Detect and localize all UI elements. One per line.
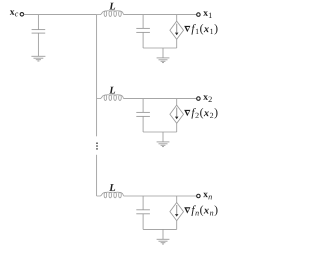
wire branch 1 rail	[124, 14, 197, 16]
wire capacitor bottom branch 3	[142, 214, 144, 230]
wire ground tap branch 3	[162, 229, 164, 239]
terminal node x_c	[20, 13, 24, 16]
current source arrow branch 3	[176, 205, 178, 214]
wire vertical bus lower	[96, 155, 98, 196]
current source arrow branch 2	[176, 108, 178, 117]
inductor value label L (branch 1)	[109, 3, 115, 10]
wire capacitor bottom branch 2	[142, 116, 144, 132]
inductor value label L (branch 2)	[109, 87, 115, 94]
capacitor branch 1	[136, 27, 150, 29]
wire x_c capacitor bottom stub	[37, 33, 39, 56]
dependent current source diamond branch 1	[170, 21, 184, 39]
wire bottom branch 2	[143, 131, 177, 133]
wire capacitor tap branch 2	[142, 99, 144, 113]
terminal node x_2	[197, 97, 201, 101]
wire bottom branch 1	[143, 47, 177, 49]
wire diamond bottom stub branch 1	[176, 39, 178, 48]
node label x_1	[203, 11, 212, 18]
current source arrow branch 1	[176, 24, 178, 33]
dependent current source diamond branch 2	[170, 105, 184, 123]
inductor L (branch 3)	[97, 192, 124, 198]
wire diamond top stub branch 2	[176, 99, 178, 106]
wire capacitor bottom branch 1	[142, 32, 144, 48]
inductor L (branch 2)	[97, 95, 124, 101]
wire branch 2 rail	[124, 98, 197, 100]
source value label nabla f_n(x_n)	[184, 207, 190, 213]
wire x_c rail	[24, 14, 97, 16]
wire diamond top stub branch 1	[176, 15, 178, 22]
wire diamond top stub branch 3	[176, 196, 178, 203]
node label x_2	[203, 95, 212, 102]
capacitor x_c	[32, 29, 46, 31]
vertical ellipsis dots on bus	[96, 142, 98, 144]
wire bottom branch 3	[143, 228, 177, 230]
node label x_n	[203, 193, 212, 200]
ground x_c	[31, 55, 45, 57]
wire ground tap branch 2	[162, 132, 164, 142]
wire diamond bottom stub branch 3	[176, 221, 178, 230]
ground branch 3	[157, 238, 170, 240]
wire capacitor tap branch 3	[142, 196, 144, 210]
ground branch 2	[157, 141, 170, 143]
terminal node x_1	[197, 13, 201, 17]
wire capacitor tap branch 1	[142, 15, 144, 29]
inductor value label L (branch 3)	[109, 184, 115, 191]
capacitor branch 2	[136, 111, 150, 113]
wire x_c capacitor top stub	[37, 15, 39, 30]
ground branch 1	[157, 57, 170, 59]
capacitor branch 3	[136, 209, 150, 211]
wire vertical bus upper	[96, 15, 98, 137]
terminal node x_n	[197, 194, 201, 198]
node label x_c	[10, 10, 18, 16]
wire ground tap branch 1	[162, 48, 164, 58]
dependent current source diamond branch 3	[170, 203, 184, 221]
source value label nabla f_1(x_1)	[184, 26, 190, 32]
source value label nabla f_2(x_2)	[184, 110, 190, 116]
wire branch 3 rail	[124, 195, 197, 197]
wire diamond bottom stub branch 2	[176, 123, 178, 132]
inductor L (branch 1)	[97, 11, 124, 17]
